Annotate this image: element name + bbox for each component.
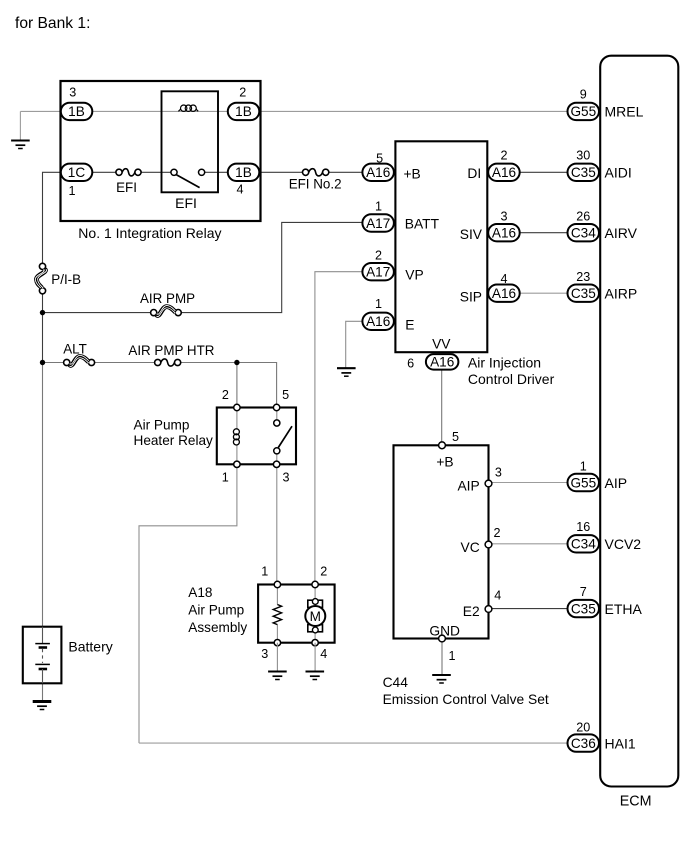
svg-text:3: 3 [69, 85, 76, 99]
svg-text:4: 4 [494, 589, 501, 603]
svg-text:C34: C34 [571, 537, 596, 552]
svg-text:EFI: EFI [116, 180, 137, 195]
svg-text:MREL: MREL [605, 104, 644, 120]
svg-text:Control Driver: Control Driver [468, 371, 555, 387]
svg-text:7: 7 [580, 585, 587, 599]
svg-text:M: M [310, 609, 321, 624]
svg-text:AIP: AIP [605, 475, 628, 491]
svg-text:C35: C35 [571, 165, 596, 180]
battery cells [35, 627, 50, 684]
air pump pin 1 terminal [274, 581, 280, 587]
junction C [234, 360, 239, 365]
heater relay pin 2 terminal [234, 404, 240, 410]
svg-text:A16: A16 [430, 355, 454, 370]
heater relay pin 1 terminal [234, 461, 240, 467]
wire EFI fuse to switch [141, 171, 171, 173]
fuse AIR PMP HTR [155, 359, 181, 366]
wire AIP link to G55 [489, 482, 568, 484]
wire P/I-B to junction A [42, 294, 44, 313]
valve set E2 terminal (pin 4) [485, 606, 492, 613]
fusible link P/I-B [35, 263, 46, 294]
wire HAI1 to ECM C36 [139, 742, 568, 744]
connector C36 pin 20 (HAI1) [568, 734, 600, 751]
svg-text:2: 2 [493, 526, 500, 540]
wire air pump pin4 to ground [314, 643, 316, 671]
svg-text:A16: A16 [492, 286, 516, 301]
svg-text:AIR PMP HTR: AIR PMP HTR [128, 343, 214, 358]
wire MREL relay pin2 to ECM G55 [259, 110, 568, 112]
connector 1B pin 4 [228, 164, 259, 181]
svg-text:ETHA: ETHA [605, 601, 643, 617]
svg-text:AIRP: AIRP [605, 286, 638, 302]
wire VC link to C34 [489, 543, 568, 545]
svg-text:3: 3 [261, 647, 268, 661]
wire SIV link to C34 [519, 232, 568, 234]
svg-text:A16: A16 [492, 165, 516, 180]
ground at air pump pin 3 [268, 672, 287, 680]
svg-text:1: 1 [375, 200, 382, 214]
svg-text:VP: VP [405, 267, 423, 282]
wire junction B to battery [42, 363, 44, 627]
svg-text:1: 1 [222, 470, 229, 484]
valve set +B terminal (pin 5) [439, 442, 446, 449]
wire heater relay pin3 to air pump pin1 [276, 464, 278, 584]
battery box [23, 627, 62, 684]
svg-text:C35: C35 [571, 286, 596, 301]
svg-text:C34: C34 [571, 226, 596, 241]
svg-text:A17: A17 [366, 265, 390, 280]
svg-text:Battery: Battery [68, 639, 112, 655]
svg-text:VV: VV [432, 336, 451, 351]
svg-text:1: 1 [448, 649, 455, 663]
svg-text:5: 5 [376, 152, 383, 166]
connector A17 pin 1 (BATT) [362, 214, 394, 231]
wire AIR PMP HTR fuse to junction C [181, 362, 237, 364]
wire AIR PMP fuse to driver BATT [181, 222, 362, 312]
fusible link ALT [64, 355, 95, 366]
air pump motor M [305, 585, 325, 643]
junction B [40, 360, 45, 365]
connector A16 pin 5 (+B) [362, 164, 394, 181]
ground at driver E pin [337, 368, 356, 376]
svg-text:5: 5 [282, 388, 289, 402]
svg-text:20: 20 [576, 721, 590, 735]
svg-text:Heater Relay: Heater Relay [134, 433, 214, 448]
relay coil [178, 105, 198, 111]
svg-text:Assembly: Assembly [188, 620, 247, 635]
relay switch contacts [171, 169, 205, 187]
svg-text:+B: +B [404, 166, 421, 181]
svg-text:G55: G55 [570, 104, 596, 119]
svg-text:2: 2 [500, 149, 507, 163]
svg-text:+B: +B [436, 454, 453, 469]
wire 1C to EFI fuse [43, 172, 117, 263]
svg-text:1: 1 [68, 184, 75, 198]
svg-text:GND: GND [429, 623, 460, 638]
svg-text:1B: 1B [68, 104, 85, 119]
svg-text:E: E [405, 317, 414, 332]
svg-text:Air Pump: Air Pump [134, 418, 190, 433]
connector C34 pin 26 (AIRV) [568, 224, 600, 241]
wire air pump pin3 to ground [276, 643, 278, 671]
wire switch to relay pin4 [205, 171, 228, 173]
air pump pin 3 terminal [274, 640, 280, 646]
svg-text:3: 3 [500, 210, 507, 224]
svg-text:HAI1: HAI1 [605, 736, 636, 752]
svg-text:BATT: BATT [405, 217, 440, 232]
svg-text:4: 4 [236, 183, 243, 197]
fuse EFI No.2 [303, 169, 329, 176]
svg-text:C35: C35 [571, 601, 596, 616]
svg-text:C36: C36 [571, 736, 596, 751]
svg-text:Air Pump: Air Pump [188, 603, 244, 618]
wire driver VV to valve set +B [441, 370, 443, 446]
svg-text:30: 30 [576, 149, 590, 163]
connector A16 pin 4 (SIP) [488, 285, 520, 302]
ground at relay pin 3 [11, 141, 30, 149]
svg-text:VCV2: VCV2 [605, 536, 642, 552]
wire E2 link to C35 [489, 608, 568, 610]
wire battery to ground [42, 683, 44, 700]
svg-text:A16: A16 [366, 165, 390, 180]
svg-text:1C: 1C [68, 165, 86, 180]
svg-text:AIR PMP: AIR PMP [140, 291, 195, 306]
Air Injection Control Driver box [395, 141, 487, 352]
wire junction A to junction B [42, 313, 44, 363]
ground at battery [33, 702, 52, 710]
svg-text:2: 2 [320, 565, 327, 579]
A18 Air Pump Assembly box [258, 585, 335, 643]
svg-text:16: 16 [576, 520, 590, 534]
heater relay switch [274, 408, 292, 465]
svg-text:ECM: ECM [620, 793, 652, 809]
svg-text:VC: VC [461, 540, 480, 555]
svg-text:4: 4 [320, 647, 327, 661]
svg-text:2: 2 [375, 249, 382, 263]
wire DI link to C35 [519, 171, 568, 173]
heater relay pin 3 terminal [273, 461, 279, 467]
fusible link AIR PMP [151, 305, 182, 316]
ground at air pump pin 4 [306, 672, 325, 680]
svg-text:A17: A17 [366, 216, 390, 231]
heater relay coil [233, 408, 239, 465]
svg-text:1: 1 [375, 297, 382, 311]
wire junction C to heater relay pin 5 [237, 363, 277, 408]
svg-text:AIDI: AIDI [605, 165, 632, 181]
air pump resistor [273, 585, 281, 643]
ECM box [600, 56, 678, 787]
wire relay coil row (pin3 to pin2) [92, 110, 228, 112]
svg-text:2: 2 [222, 388, 229, 402]
valve set GND terminal (pin 1) [439, 635, 446, 642]
connector A16 pin 3 (SIV) [488, 224, 520, 241]
connector C35 pin 23 (AIRP) [568, 285, 600, 302]
svg-text:No. 1 Integration Relay: No. 1 Integration Relay [78, 225, 221, 241]
ground at valve set GND [432, 675, 451, 683]
wire junction A to AIR PMP fuse [43, 312, 151, 314]
connector A16 pin 6 (VV) [426, 354, 459, 370]
wire relay pin4 to EFI No.2 fuse [259, 171, 302, 173]
C44 Emission Control Valve Set box [394, 445, 489, 638]
connector 1B pin 2 [228, 103, 259, 120]
svg-text:Emission Control Valve Set: Emission Control Valve Set [383, 692, 549, 707]
wire heater relay pin1 to HAI1 run [139, 464, 237, 743]
connector 1C pin 1 [61, 164, 93, 181]
wire valve set GND to ground [441, 639, 443, 675]
relay inner box [162, 91, 219, 192]
connector A16 pin 2 (DI) [488, 164, 520, 181]
svg-text:SIP: SIP [460, 290, 482, 305]
svg-text:1B: 1B [235, 104, 252, 119]
svg-text:AIRV: AIRV [605, 225, 638, 241]
wire ground to relay pin 3 (1B) [20, 110, 60, 112]
heater relay pin 5 terminal [273, 404, 279, 410]
svg-text:A16: A16 [366, 314, 390, 329]
connector C35 pin 7 (ETHA) [568, 600, 600, 617]
svg-text:EFI No.2: EFI No.2 [289, 177, 342, 192]
valve set VC terminal (pin 2) [485, 541, 492, 548]
svg-text:2: 2 [239, 85, 246, 99]
valve set AIP terminal (pin 3) [485, 480, 492, 487]
svg-text:E2: E2 [463, 604, 480, 619]
svg-text:5: 5 [452, 430, 459, 444]
wire SIP link to C35 [519, 292, 568, 294]
junction A [40, 310, 45, 315]
fuse EFI [116, 169, 141, 176]
connector G55 pin 9 (MREL) [568, 103, 600, 120]
wire ground tail top-left [19, 111, 21, 140]
connector 1B pin 3 [61, 103, 93, 120]
svg-text:6: 6 [407, 357, 414, 371]
Air Pump Heater Relay box [217, 408, 296, 465]
wire junction C to heater relay pin 2 [236, 363, 238, 408]
svg-text:SIV: SIV [460, 227, 483, 242]
No. 1 Integration Relay box [61, 81, 261, 221]
svg-text:for Bank 1:: for Bank 1: [15, 15, 90, 32]
wire EFI No.2 fuse to driver +B [329, 171, 362, 173]
svg-text:3: 3 [495, 465, 502, 479]
connector A16 pin 1 (E) [362, 313, 394, 330]
svg-text:C44: C44 [383, 675, 409, 690]
svg-text:G55: G55 [570, 475, 596, 490]
svg-text:1: 1 [261, 565, 268, 579]
svg-text:ALT: ALT [63, 342, 87, 357]
svg-text:4: 4 [500, 272, 507, 286]
wire driver E to ground [346, 321, 363, 367]
svg-text:DI: DI [467, 166, 481, 181]
svg-text:26: 26 [576, 210, 590, 224]
svg-text:9: 9 [580, 88, 587, 102]
connector G55 pin 1 (AIP) [568, 474, 600, 491]
svg-text:EFI: EFI [175, 195, 197, 211]
air pump pin 2 terminal [312, 581, 318, 587]
svg-text:1B: 1B [235, 165, 252, 180]
svg-text:A16: A16 [492, 226, 516, 241]
svg-text:P/I-B: P/I-B [51, 272, 81, 287]
wire ALT fuse to AIR PMP HTR fuse [95, 362, 155, 364]
svg-text:1: 1 [580, 459, 587, 473]
svg-text:3: 3 [282, 470, 289, 484]
svg-text:Air Injection: Air Injection [468, 355, 541, 371]
connector C34 pin 16 (VCV2) [568, 535, 600, 552]
wire junction B to ALT fuse [43, 362, 64, 364]
svg-text:AIP: AIP [457, 478, 479, 493]
connector C35 pin 30 (AIDI) [568, 164, 600, 181]
svg-text:23: 23 [576, 270, 590, 284]
connector A17 pin 2 (VP) [362, 263, 394, 280]
air pump pin 4 terminal [312, 640, 318, 646]
svg-text:A18: A18 [188, 585, 212, 600]
wire driver VP to air pump pin2 [315, 272, 363, 585]
